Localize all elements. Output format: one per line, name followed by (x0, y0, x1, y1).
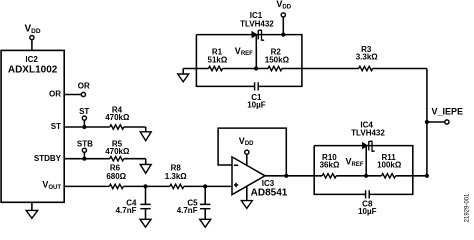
wire ST row (64, 126, 110, 128)
svg-text:470kΩ: 470kΩ (105, 113, 130, 122)
ground below op-amp (241, 201, 252, 209)
capacitor C8 (358, 190, 377, 216)
shunt reference IC1 TLVH432 (240, 11, 274, 68)
power V_DD terminal above IC2 (25, 24, 41, 51)
wire R2 to loop edge (282, 68, 302, 70)
node V_REF IC4 (346, 157, 369, 178)
ground below C4 (140, 219, 151, 227)
svg-text:TLVH432: TLVH432 (240, 19, 274, 28)
node V_IEPE output terminal (425, 106, 463, 124)
node ST terminal (79, 107, 89, 129)
svg-text:680Ω: 680Ω (106, 172, 126, 181)
svg-text:STB: STB (77, 139, 93, 148)
svg-text:OR: OR (78, 81, 90, 90)
shunt reference IC4 TLVH432 (351, 121, 385, 176)
wire STDBY row (64, 158, 110, 160)
ground below C5 (200, 219, 211, 227)
ground after R4 (140, 127, 151, 141)
svg-text:36kΩ: 36kΩ (320, 161, 340, 170)
node OR terminal (64, 81, 90, 96)
resistor R3 (356, 45, 379, 71)
power V_DD terminal at IC1 (276, 0, 291, 37)
wire V_IEPE riser (426, 69, 428, 176)
capacitor C5 (177, 186, 211, 219)
wire loop to R3 (302, 68, 359, 70)
op-amp IC3 AD8541 (232, 136, 288, 201)
wire R5 to ground (124, 158, 146, 160)
resistor R1 (208, 48, 228, 71)
svg-text:V_IEPE: V_IEPE (432, 106, 464, 116)
wire IC1 regulator loop (196, 35, 302, 87)
wire R3 to corner (373, 68, 427, 70)
wire IC4 loop (314, 146, 413, 195)
svg-text:IC2: IC2 (25, 55, 38, 64)
wire R1 row from ground (183, 68, 208, 70)
wire R4 to ground (124, 126, 146, 128)
wire V_OUT row (64, 185, 109, 187)
junction node C4 (143, 184, 147, 188)
svg-text:4.7nF: 4.7nF (116, 206, 137, 215)
svg-text:OR: OR (49, 90, 61, 99)
svg-text:1.3kΩ: 1.3kΩ (165, 172, 188, 181)
resistor R11 (377, 153, 402, 178)
svg-text:470kΩ: 470kΩ (105, 147, 130, 156)
ground at IC1 divider (178, 69, 189, 82)
svg-text:10µF: 10µF (247, 101, 266, 110)
node V_REF IC1 (235, 46, 258, 71)
svg-text:ST: ST (79, 107, 89, 116)
svg-text:STDBY: STDBY (34, 154, 62, 163)
node STB terminal (77, 139, 93, 160)
resistor R2 (265, 48, 290, 71)
capacitor C1 (247, 82, 266, 109)
svg-text:4.7nF: 4.7nF (177, 206, 198, 215)
IC2 ADXL1002 (1, 50, 64, 202)
resistor R4 (105, 105, 130, 129)
resistor R6 (106, 164, 126, 189)
wire R1 to R2 (223, 68, 269, 70)
junction node at IC4 output row (425, 174, 429, 178)
ground below IC2 (26, 202, 38, 218)
wire op-amp output row (265, 175, 427, 177)
resistor R10 (320, 153, 340, 178)
resistor R8 (165, 164, 188, 189)
op-amp IC3 AD8541 feedback wire (218, 128, 286, 176)
svg-text:ADXL1002: ADXL1002 (8, 64, 58, 75)
wire R8 to op-amp (184, 185, 232, 187)
svg-text:21929-001: 21929-001 (465, 193, 471, 222)
resistor R5 (105, 139, 130, 161)
svg-text:10µF: 10µF (358, 207, 377, 216)
capacitor C4 (116, 186, 151, 219)
svg-text:51kΩ: 51kΩ (208, 56, 228, 65)
ground after R5 (140, 159, 151, 174)
svg-text:TLVH432: TLVH432 (351, 129, 385, 138)
junction node C5 (203, 184, 207, 188)
svg-text:3.3kΩ: 3.3kΩ (356, 53, 379, 62)
junction node op-amp output / feedback (284, 174, 288, 178)
svg-text:100kΩ: 100kΩ (377, 161, 402, 170)
wire R6 to R8 (123, 185, 170, 187)
svg-text:ST: ST (51, 122, 61, 131)
svg-text:AD8541: AD8541 (251, 188, 288, 199)
svg-text:150kΩ: 150kΩ (265, 56, 290, 65)
